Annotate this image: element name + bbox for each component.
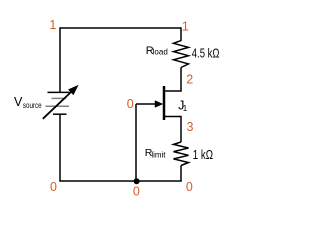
node 0 gate: [127, 97, 134, 111]
svg-text:1: 1: [49, 18, 56, 32]
wire source lead: [164, 117, 181, 143]
svg-text:limit: limit: [151, 151, 166, 160]
node 0 bottom middle: [133, 184, 140, 198]
gate wire with arrow: [136, 101, 163, 108]
node 0 bottom left: [50, 180, 57, 194]
junction dot node 0: [134, 178, 140, 184]
wire drain lead: [164, 68, 181, 92]
label R_limit: [145, 147, 166, 160]
label R_load: [146, 45, 168, 57]
node 1 right: [182, 19, 189, 33]
label V_source: [14, 95, 42, 110]
svg-text:1: 1: [182, 19, 189, 33]
svg-text:1 kΩ: 1 kΩ: [193, 148, 213, 162]
svg-text:0: 0: [186, 180, 193, 194]
svg-text:load: load: [153, 48, 168, 57]
wire right upper: [180, 27, 182, 41]
wire R_limit bottom lead: [180, 166, 182, 182]
wire top: [60, 27, 181, 29]
value 4.5 kOhm: [192, 46, 220, 60]
svg-text:0: 0: [133, 184, 140, 198]
node 3: [187, 120, 194, 134]
variable arrow of V_source: [43, 86, 78, 119]
value 1 kOhm: [193, 148, 213, 162]
label J1: [178, 99, 188, 113]
svg-text:0: 0: [127, 97, 134, 111]
resistor R_load: [174, 41, 189, 68]
svg-text:3: 3: [187, 120, 194, 134]
battery V_source: [46, 92, 70, 114]
transistor J1 channel bar: [163, 86, 166, 120]
wire left lower: [59, 114, 61, 181]
node 0 bottom right: [186, 180, 193, 194]
wire left upper: [59, 27, 61, 92]
svg-text:1: 1: [183, 104, 188, 113]
node 1 left: [49, 18, 56, 32]
svg-text:source: source: [23, 101, 42, 110]
svg-text:4.5 kΩ: 4.5 kΩ: [192, 46, 220, 60]
svg-text:0: 0: [50, 180, 57, 194]
node 2: [186, 73, 193, 87]
resistor R_limit: [174, 142, 189, 166]
svg-text:2: 2: [186, 73, 193, 87]
wire bottom: [59, 180, 181, 182]
svg-text:V: V: [14, 95, 23, 109]
wire gate riser: [135, 104, 137, 181]
